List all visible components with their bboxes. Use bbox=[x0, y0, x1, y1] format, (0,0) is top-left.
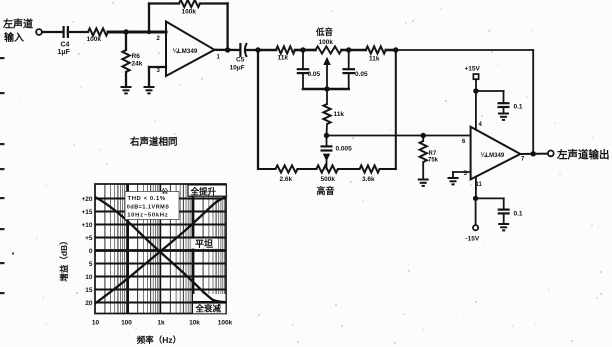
svg-text:11k: 11k bbox=[369, 56, 380, 63]
node -15V rail bbox=[473, 196, 478, 201]
ground below R6 bbox=[121, 87, 132, 93]
svg-text:6: 6 bbox=[462, 139, 466, 145]
capacitor 0.05 right bbox=[348, 50, 350, 68]
graph horizontal gridlines bbox=[95, 198, 226, 200]
svg-text:高音: 高音 bbox=[317, 185, 335, 196]
svg-text:输入: 输入 bbox=[4, 31, 24, 44]
svg-text:0.05: 0.05 bbox=[308, 71, 321, 78]
wire node A to pot bbox=[303, 49, 316, 52]
svg-text:1k: 1k bbox=[157, 320, 165, 327]
node U1 output junction bbox=[225, 47, 230, 52]
svg-text:4: 4 bbox=[479, 122, 483, 128]
capacitor 0.1 supply- bbox=[498, 210, 510, 214]
svg-text:5: 5 bbox=[89, 261, 93, 268]
wire top rail to feedback corner bbox=[396, 49, 533, 51]
node +15V rail bbox=[473, 88, 478, 93]
curve flat segment at -20 over label bbox=[193, 301, 226, 304]
svg-text:0.005: 0.005 bbox=[336, 146, 353, 153]
capacitor C4 bbox=[64, 26, 68, 38]
wire bottom rail left bbox=[258, 168, 276, 170]
svg-text:10: 10 bbox=[85, 274, 93, 281]
label 全衰减 bg bbox=[193, 294, 226, 313]
ground at U1 pin3 bbox=[144, 87, 155, 93]
capacitor C5 bbox=[239, 43, 241, 57]
svg-text:11k: 11k bbox=[278, 55, 289, 62]
resistor 100k feedback U1 bbox=[179, 0, 200, 7]
svg-text:2: 2 bbox=[157, 36, 161, 42]
wire pot to node B bbox=[342, 49, 349, 52]
svg-text:C4: C4 bbox=[61, 42, 70, 49]
svg-text:C5: C5 bbox=[236, 57, 245, 64]
wire R100k to opamp pin2 bbox=[108, 31, 166, 34]
node input junction bbox=[123, 29, 128, 34]
svg-text:0.1: 0.1 bbox=[514, 211, 523, 218]
wire node to 11k left bbox=[258, 49, 276, 52]
node output junction bbox=[531, 151, 536, 156]
resistor R6 bbox=[122, 50, 129, 72]
svg-text:1: 1 bbox=[217, 55, 221, 61]
wire feedback left vertical bbox=[148, 4, 150, 33]
svg-text:THD < 0.1%: THD < 0.1% bbox=[128, 196, 166, 202]
annotation box bbox=[125, 192, 179, 220]
svg-text:R6: R6 bbox=[132, 53, 141, 60]
svg-text:+15V: +15V bbox=[465, 66, 481, 73]
wire right vertical bottom rail bbox=[395, 50, 397, 169]
capacitor 0.1 supply+ bbox=[498, 103, 510, 107]
svg-text:低音: 低音 bbox=[315, 27, 334, 37]
svg-text:10k: 10k bbox=[189, 320, 200, 327]
svg-text:15: 15 bbox=[85, 287, 93, 294]
svg-text:R7: R7 bbox=[429, 151, 437, 157]
wire cap to ground sup+ bbox=[503, 107, 505, 114]
svg-text:75k: 75k bbox=[428, 158, 439, 164]
wire bottom rail right bbox=[380, 168, 396, 170]
capacitor 0.005 bbox=[326, 136, 328, 147]
input terminal (left channel in) bbox=[36, 29, 42, 35]
wire node to R7 bbox=[422, 136, 424, 142]
svg-text:右声道相同: 右声道相同 bbox=[129, 136, 178, 148]
wire node to -15V terminal bbox=[475, 198, 477, 225]
wire +15V node to pin4 bbox=[475, 91, 477, 130]
curve full boost (ascending) bbox=[95, 197, 226, 303]
resistor 11k right bbox=[366, 46, 386, 53]
potentiometer 100k bass bbox=[316, 46, 342, 53]
curve full cut (descending) bbox=[95, 197, 226, 302]
wire 11k to node A bbox=[295, 49, 303, 52]
wire R6 to ground bbox=[125, 72, 127, 87]
wire to 11k mid bbox=[326, 89, 328, 104]
svg-text:0.05: 0.05 bbox=[355, 71, 368, 78]
resistor 2.6k bbox=[276, 165, 298, 172]
svg-text:频率（Hz）: 频率（Hz） bbox=[137, 335, 181, 345]
label 全提升 box bbox=[188, 185, 226, 196]
svg-text:100k: 100k bbox=[87, 36, 102, 43]
node after C5 bbox=[255, 47, 260, 52]
svg-text:左声道输出: 左声道输出 bbox=[556, 148, 610, 161]
wire +15V node to cap 0.1 bbox=[476, 90, 504, 92]
svg-text:500k: 500k bbox=[321, 176, 336, 183]
resistor R7 bbox=[420, 141, 427, 162]
svg-text:全提升: 全提升 bbox=[190, 187, 217, 197]
svg-text:平坦: 平坦 bbox=[195, 238, 213, 249]
svg-text:+10: +10 bbox=[81, 222, 92, 229]
potentiometer 500k treble bbox=[316, 165, 337, 172]
svg-text:3: 3 bbox=[157, 68, 161, 74]
graph vertical log gridlines bbox=[104, 184, 106, 314]
svg-text:10μF: 10μF bbox=[230, 65, 245, 72]
svg-text:100k: 100k bbox=[218, 320, 233, 327]
wire +15V to node bbox=[475, 79, 477, 91]
svg-text:增益（dB）: 增益（dB） bbox=[59, 236, 69, 281]
resistor 11k left bbox=[276, 46, 295, 53]
treble pot wiper arrow bbox=[323, 154, 330, 162]
svg-text:全衰减: 全衰减 bbox=[195, 304, 222, 314]
svg-text:11k: 11k bbox=[334, 111, 345, 118]
svg-text:10: 10 bbox=[92, 320, 100, 327]
node R7 junction bbox=[421, 133, 426, 138]
svg-text:左声道: 左声道 bbox=[2, 18, 33, 31]
op-amp U2 1/4 LM349 bbox=[471, 127, 521, 180]
wire -15V node to cap 0.1 bbox=[476, 197, 504, 199]
svg-text:¼LM349: ¼LM349 bbox=[173, 47, 198, 55]
node D treble junction bbox=[324, 133, 329, 138]
svg-text:-15V: -15V bbox=[466, 236, 480, 243]
svg-text:0: 0 bbox=[89, 248, 93, 255]
wire 11k right to node C bbox=[386, 49, 396, 52]
svg-text:2.6k: 2.6k bbox=[280, 176, 293, 183]
svg-text:100: 100 bbox=[121, 320, 132, 327]
wire U2 pin5 to ground bbox=[453, 171, 471, 173]
page-edge scan marks bbox=[0, 57, 5, 59]
svg-text:10Hz~50kHz: 10Hz~50kHz bbox=[127, 213, 168, 219]
terminal +15V bbox=[473, 74, 478, 79]
svg-text:100k: 100k bbox=[182, 9, 197, 16]
wire 11k mid to node D bbox=[326, 124, 329, 136]
node A bass left bbox=[300, 47, 305, 52]
wire feedback top left bbox=[149, 2, 179, 4]
node B bass right bbox=[346, 47, 351, 52]
label 平坦 bg bbox=[192, 239, 218, 249]
wire right feedback vertical bbox=[532, 50, 534, 154]
wire feedback right vertical bbox=[226, 4, 228, 51]
graph frame bbox=[95, 184, 226, 314]
wire R7 to ground bbox=[422, 162, 424, 180]
svg-text:24k: 24k bbox=[132, 61, 143, 68]
wire 2.6k to pot bbox=[298, 168, 317, 170]
wire bass bottom connector bbox=[303, 88, 349, 91]
wire cap to ground sup- bbox=[503, 213, 505, 224]
resistor 11k middle bbox=[323, 104, 330, 124]
wire node D to U2 pin6 bbox=[327, 135, 471, 137]
svg-text:+20: +20 bbox=[81, 196, 92, 203]
svg-text:1μF: 1μF bbox=[58, 49, 71, 56]
wire C4 to R 100k bbox=[68, 31, 88, 33]
wire feedback top right bbox=[200, 2, 228, 4]
svg-text:0dB=1.1VRMS: 0dB=1.1VRMS bbox=[127, 204, 170, 210]
wire pin11 to node bbox=[475, 177, 477, 199]
svg-text:3.6k: 3.6k bbox=[362, 176, 375, 183]
svg-text:7: 7 bbox=[521, 157, 525, 163]
wire pin3 to ground bbox=[149, 66, 166, 68]
svg-text:0.1: 0.1 bbox=[514, 104, 523, 111]
wire pot to 3.6k bbox=[338, 168, 360, 170]
output terminal bbox=[548, 151, 554, 157]
wire U1 output bbox=[215, 49, 241, 52]
ground supply+ cap bbox=[498, 114, 509, 120]
ground supply- cap bbox=[498, 224, 509, 230]
node bass wiper junction bbox=[324, 86, 329, 91]
wire left vertical to bottom rail bbox=[257, 50, 259, 169]
svg-text:+5: +5 bbox=[85, 235, 93, 242]
scan noise speckles bbox=[198, 53, 200, 55]
bass pot wiper arrow bbox=[326, 64, 328, 89]
wire U2 output bbox=[520, 153, 548, 155]
svg-text:100k: 100k bbox=[319, 39, 334, 46]
svg-text:¼LM349: ¼LM349 bbox=[481, 152, 505, 159]
terminal -15V bbox=[473, 225, 478, 230]
resistor 100k input bbox=[88, 28, 108, 35]
wire C5 to node bbox=[246, 49, 258, 51]
wire node B to 11k right bbox=[349, 49, 366, 52]
resistor 3.6k bbox=[360, 165, 380, 172]
node C bbox=[393, 47, 398, 52]
ground below R7 bbox=[418, 180, 429, 186]
wire node to R6 bbox=[125, 32, 127, 50]
capacitor 0.05 left bbox=[302, 50, 304, 68]
svg-text:+15: +15 bbox=[81, 209, 92, 216]
op-amp U1 1/4 LM349 bbox=[166, 22, 215, 77]
wire input to C4 bbox=[42, 31, 63, 33]
ground at U2 pin5 bbox=[448, 178, 459, 184]
svg-text:公: 公 bbox=[162, 187, 169, 195]
node feedback-input junction bbox=[147, 30, 151, 34]
